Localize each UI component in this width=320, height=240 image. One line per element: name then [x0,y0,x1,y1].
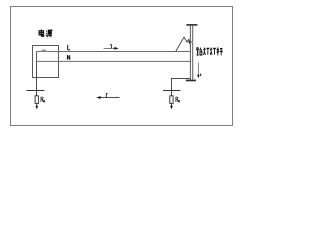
right ground surface line [163,90,181,92]
灯 [204,47,210,54]
left ground electrode resistor [35,96,38,104]
label L [68,45,70,50]
路 [197,48,202,55]
riser zigzag arrow to pole [176,37,192,51]
电 [39,29,44,36]
label 路灯灯杆 (street light pole) [197,47,223,55]
cable arrow marker (down, at pole) [197,63,201,79]
cable arrow marker (bottom-middle, pointing left) [96,93,119,99]
cable arrow marker (top, pointing right) [104,44,119,50]
杆 [217,47,223,55]
wire pole to right ground [172,79,191,96]
street light pole [186,24,198,81]
fuse on L line [42,50,47,52]
label Rd (left) [41,97,45,102]
right electrode arrow [171,104,173,107]
wire L phase line [37,51,191,53]
right ground electrode resistor [170,96,173,104]
border frame [11,7,233,126]
源 [46,30,52,37]
wire L-to-N bus drop [36,52,38,62]
power box [33,46,59,78]
left electrode arrow [36,104,38,107]
wire ground bus drop [36,61,38,95]
label N [67,55,69,60]
label 电源 (power source) [39,29,52,37]
label Rd (right) [176,97,180,102]
left ground surface line [27,90,45,92]
wire N neutral line [37,60,191,62]
灯 [210,47,216,54]
